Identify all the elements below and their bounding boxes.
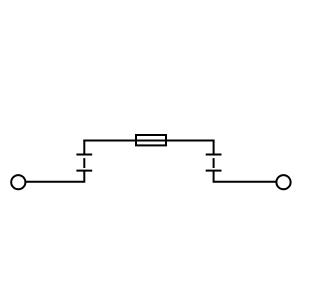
- disconnect right: lower tick: [206, 170, 222, 172]
- disconnect left: lower tick: [76, 170, 92, 172]
- terminal circle left: [11, 175, 25, 189]
- disconnect left: upper tick: [76, 154, 92, 156]
- disconnect right: middle dash: [213, 158, 215, 168]
- wire: left tick up to top rail corner: [83, 141, 85, 155]
- terminal circle right: [276, 175, 290, 189]
- wire: top rail corner down to right tick: [213, 141, 215, 155]
- wire: top rail (passes through fuse): [83, 140, 214, 142]
- disconnect left: middle dash: [83, 158, 85, 168]
- wire: right disconnect down and to right circle: [214, 171, 277, 182]
- fuse: [136, 135, 166, 145]
- wire: left circle to left disconnect, up to tick: [25, 171, 84, 182]
- disconnect right: upper tick: [206, 154, 222, 156]
